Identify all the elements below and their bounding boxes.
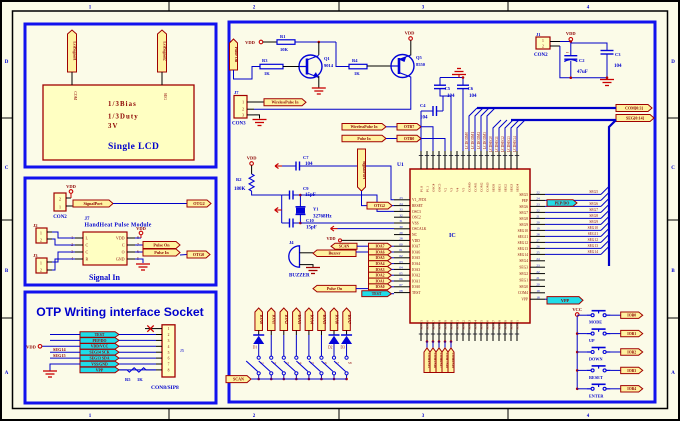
svg-text:IOA3: IOA3 <box>375 268 384 272</box>
svg-text:A: A <box>671 371 675 376</box>
svg-text:SEG8: SEG8 <box>589 214 598 218</box>
svg-text:Single LCD: Single LCD <box>108 142 159 152</box>
svg-text:VPP: VPP <box>521 298 528 302</box>
svg-text:2: 2 <box>168 333 170 337</box>
svg-text:23: 23 <box>399 196 403 200</box>
svg-text:A: A <box>5 371 9 376</box>
svg-text:IOA7: IOA7 <box>412 245 420 249</box>
svg-text:IOA5: IOA5 <box>375 256 384 260</box>
svg-text:C: C <box>122 243 125 248</box>
svg-text:IOA5: IOA5 <box>412 256 420 260</box>
svg-text:LcdSignal2: LcdSignal2 <box>162 41 167 60</box>
svg-text:Pulse On: Pulse On <box>327 286 343 291</box>
svg-text:18: 18 <box>536 295 540 299</box>
svg-text:SEG22: SEG22 <box>462 320 466 330</box>
svg-text:Y1: Y1 <box>313 207 319 212</box>
svg-text:BUZZER: BUZZER <box>289 274 310 279</box>
svg-text:COM4: COM4 <box>518 291 528 295</box>
svg-text:SEG16: SEG16 <box>426 320 430 330</box>
svg-text:27: 27 <box>536 239 540 243</box>
svg-text:VDD: VDD <box>136 226 146 231</box>
svg-text:23: 23 <box>536 203 540 207</box>
svg-text:SEG0: SEG0 <box>519 285 528 289</box>
svg-text:3V: 3V <box>108 123 119 130</box>
svg-text:VDD: VDD <box>116 236 125 241</box>
svg-text:OTB7: OTB7 <box>404 124 414 129</box>
svg-text:J2: J2 <box>33 223 38 228</box>
svg-text:IOB3: IOB3 <box>627 369 636 373</box>
svg-text:32768Hz: 32768Hz <box>313 215 332 220</box>
svg-text:J4: J4 <box>289 240 294 245</box>
svg-text:VCC: VCC <box>572 307 582 312</box>
svg-text:IOA6: IOA6 <box>334 314 339 324</box>
svg-text:22: 22 <box>536 209 540 213</box>
svg-text:180K: 180K <box>234 187 246 192</box>
svg-text:SEG21: SEG21 <box>456 320 460 330</box>
svg-text:SEG14 SCK: SEG14 SCK <box>89 351 109 355</box>
svg-text:SEG6: SEG6 <box>519 205 528 209</box>
svg-text:IOA4: IOA4 <box>412 262 420 266</box>
svg-text:DOWN: DOWN <box>589 357 603 362</box>
svg-text:SEG14: SEG14 <box>588 250 599 254</box>
svg-text:GND: GND <box>116 257 125 262</box>
svg-text:IOA0: IOA0 <box>412 285 420 289</box>
svg-text:LCDCOM2: LCDCOM2 <box>477 132 481 149</box>
svg-text:SEG18: SEG18 <box>438 320 442 330</box>
svg-text:SEG1: SEG1 <box>519 278 528 282</box>
svg-text:OSC5: OSC5 <box>438 183 442 192</box>
svg-text:C4: C4 <box>420 103 426 108</box>
svg-text:C: C <box>86 243 89 248</box>
svg-text:P1.0: P1.0 <box>420 186 424 192</box>
svg-text:19: 19 <box>536 227 540 231</box>
svg-text:CON2: CON2 <box>53 215 67 220</box>
svg-text:SCAN: SCAN <box>233 377 244 382</box>
svg-text:NC: NC <box>412 233 418 237</box>
svg-text:PEP: PEP <box>522 199 528 203</box>
svg-text:1: 1 <box>542 39 544 43</box>
svg-text:IOA1: IOA1 <box>412 279 420 283</box>
svg-text:WirelessPulse In: WirelessPulse In <box>272 101 300 105</box>
svg-text:COM1: COM1 <box>474 182 478 192</box>
svg-text:SEG24: SEG24 <box>474 320 478 330</box>
svg-text:C: C <box>86 250 89 255</box>
svg-text:SEG10: SEG10 <box>588 226 599 230</box>
svg-text:SEG12: SEG12 <box>588 238 599 242</box>
svg-text:D: D <box>5 60 9 65</box>
svg-text:U1: U1 <box>397 162 404 168</box>
svg-text:LCDSEG0: LCDSEG0 <box>489 136 493 152</box>
svg-text:IOA7: IOA7 <box>375 245 384 249</box>
svg-text:VSS: VSS <box>412 221 419 225</box>
svg-text:LCDSEG4: LCDSEG4 <box>513 136 517 152</box>
svg-text:OTB0: OTB0 <box>404 136 414 141</box>
svg-text:PEP/DO: PEP/DO <box>555 200 570 205</box>
svg-text:RESET: RESET <box>412 204 424 208</box>
svg-text:WirelessPulse In: WirelessPulse In <box>351 125 379 129</box>
svg-text:SEG5: SEG5 <box>589 190 598 194</box>
svg-text:SEG3: SEG3 <box>510 184 514 192</box>
svg-text:SEG29: SEG29 <box>504 320 508 330</box>
svg-text:23: 23 <box>536 263 540 267</box>
svg-text:SEG19: SEG19 <box>444 320 448 330</box>
svg-text:R1: R1 <box>280 34 286 39</box>
svg-text:IOA0: IOA0 <box>375 285 384 289</box>
svg-text:VPP: VPP <box>561 298 570 303</box>
svg-text:SEG28: SEG28 <box>498 320 502 330</box>
svg-text:SEG13: SEG13 <box>588 244 599 248</box>
svg-text:2: 2 <box>40 269 42 273</box>
svg-text:VDD: VDD <box>412 239 420 243</box>
svg-text:01: 01 <box>399 248 403 252</box>
svg-text:26: 26 <box>536 245 540 249</box>
svg-text:SEG2: SEG2 <box>519 272 528 276</box>
svg-text:SEG14: SEG14 <box>53 347 66 352</box>
svg-text:28: 28 <box>536 233 540 237</box>
svg-text:J7: J7 <box>234 90 239 95</box>
svg-text:R2: R2 <box>236 177 242 182</box>
svg-text:CON3: CON3 <box>232 122 246 127</box>
svg-text:TEST: TEST <box>412 291 421 295</box>
svg-text:VDD/VCC: VDD/VCC <box>91 345 109 349</box>
svg-text:22: 22 <box>536 270 540 274</box>
svg-text:21: 21 <box>536 215 540 219</box>
svg-text:C9: C9 <box>303 186 309 191</box>
svg-text:COM: COM <box>73 91 77 100</box>
svg-text:RESET: RESET <box>589 375 603 380</box>
svg-text:SCAN: SCAN <box>339 245 350 249</box>
svg-text:C7: C7 <box>303 155 309 160</box>
svg-text:IOA2: IOA2 <box>284 314 289 324</box>
svg-text:IOA2: IOA2 <box>412 274 420 278</box>
svg-text:9014: 9014 <box>324 63 334 68</box>
svg-text:Pulse In: Pulse In <box>154 250 169 255</box>
svg-text:VDD: VDD <box>245 40 255 45</box>
svg-text:07: 07 <box>399 283 403 287</box>
svg-text:OSC2: OSC2 <box>412 216 421 220</box>
svg-text:31: 31 <box>399 219 403 223</box>
svg-text:IOA3: IOA3 <box>412 268 420 272</box>
svg-text:24: 24 <box>536 197 540 201</box>
svg-text:2: 2 <box>542 45 544 49</box>
svg-text:J3: J3 <box>33 253 38 258</box>
svg-text:104: 104 <box>469 94 477 99</box>
svg-text:04: 04 <box>399 266 403 270</box>
svg-text:SignalPort: SignalPort <box>362 161 367 180</box>
svg-text:TEST: TEST <box>372 292 382 296</box>
svg-text:Buzzer: Buzzer <box>329 251 341 256</box>
svg-text:C5: C5 <box>445 86 451 91</box>
svg-text:J7: J7 <box>85 217 91 222</box>
svg-text:~: ~ <box>566 51 569 56</box>
svg-text:CON8/SIP8: CON8/SIP8 <box>151 385 179 391</box>
svg-text:IOA7: IOA7 <box>347 314 352 324</box>
svg-text:SEG20: SEG20 <box>450 320 454 330</box>
svg-text:104: 104 <box>614 64 622 69</box>
svg-text:02: 02 <box>399 254 403 258</box>
svg-text:C3: C3 <box>615 52 621 57</box>
svg-text:C2: C2 <box>579 58 585 63</box>
svg-text:UP: UP <box>589 338 595 343</box>
svg-text:SEG2: SEG2 <box>504 184 508 192</box>
svg-text:24: 24 <box>536 257 540 261</box>
svg-text:OSC3: OSC3 <box>412 210 421 214</box>
svg-text:OSC4: OSC4 <box>432 183 436 192</box>
svg-text:IOA1: IOA1 <box>272 314 277 324</box>
svg-text:21: 21 <box>536 276 540 280</box>
svg-text:47uF: 47uF <box>577 70 588 75</box>
svg-text:1: 1 <box>168 327 170 331</box>
svg-text:VDD: VDD <box>405 31 415 36</box>
svg-text:SEG9: SEG9 <box>589 220 598 224</box>
svg-text:SignalPort: SignalPort <box>83 201 103 206</box>
svg-text:SEG15: SEG15 <box>420 320 424 330</box>
svg-text:SEG7: SEG7 <box>589 208 598 212</box>
svg-text:D2: D2 <box>328 346 333 350</box>
svg-text:SEG: SEG <box>163 93 167 100</box>
svg-text:TEST: TEST <box>95 333 105 337</box>
svg-text:R4: R4 <box>352 58 358 63</box>
svg-text:V5: V5 <box>462 188 466 192</box>
svg-text:D1: D1 <box>253 346 258 350</box>
svg-text:R3: R3 <box>262 58 268 63</box>
svg-text:R: R <box>86 257 89 262</box>
svg-text:Q1: Q1 <box>324 56 331 61</box>
svg-text:SEG11: SEG11 <box>518 235 528 239</box>
svg-text:D: D <box>671 60 675 65</box>
svg-text:IOA6: IOA6 <box>412 250 420 254</box>
svg-text:PEP/DO: PEP/DO <box>93 339 107 343</box>
svg-text:06: 06 <box>399 277 403 281</box>
svg-text:O: O <box>122 250 125 255</box>
svg-text:SEG1: SEG1 <box>498 184 502 192</box>
svg-text:IOB4: IOB4 <box>627 387 636 391</box>
svg-text:V4: V4 <box>456 188 460 192</box>
svg-text:LCDCOM0: LCDCOM0 <box>465 132 469 149</box>
svg-text:SEG4: SEG4 <box>519 259 528 263</box>
svg-text:1: 1 <box>40 262 42 266</box>
svg-text:19: 19 <box>536 289 540 293</box>
svg-text:OTP Writing interface Socket: OTP Writing interface Socket <box>36 305 204 319</box>
svg-text:V1_JVD1: V1_JVD1 <box>412 198 427 202</box>
svg-text:LCDSEG2: LCDSEG2 <box>501 136 505 152</box>
svg-text:Pulse On: Pulse On <box>234 47 239 63</box>
svg-text:30: 30 <box>399 225 403 229</box>
svg-text:COM8/S19: COM8/S19 <box>451 353 455 369</box>
svg-text:SEG4: SEG4 <box>516 184 520 192</box>
svg-text:V3: V3 <box>450 188 454 192</box>
svg-text:C: C <box>5 166 9 171</box>
svg-text:00: 00 <box>399 242 403 246</box>
svg-text:SEG7: SEG7 <box>519 211 528 215</box>
svg-text:22: 22 <box>536 191 540 195</box>
svg-text:SEG27: SEG27 <box>492 320 496 330</box>
svg-text:VSS/GND: VSS/GND <box>91 362 108 366</box>
svg-text:SEG14: SEG14 <box>518 253 529 257</box>
svg-text:VDD: VDD <box>26 344 36 349</box>
svg-text:P1.1: P1.1 <box>426 186 430 192</box>
svg-text:OSCALK: OSCALK <box>412 227 427 231</box>
svg-text:COM0: COM0 <box>468 182 472 192</box>
svg-text:28: 28 <box>399 237 403 241</box>
svg-text:20: 20 <box>536 283 540 287</box>
svg-text:2: 2 <box>59 197 61 202</box>
svg-text:COM3: COM3 <box>486 182 490 192</box>
svg-text:C: C <box>671 166 675 171</box>
svg-text:SEG9: SEG9 <box>519 223 528 227</box>
svg-text:SEG13 SDA: SEG13 SDA <box>90 356 110 360</box>
svg-text:SEG26: SEG26 <box>486 320 490 330</box>
svg-text:SEG25: SEG25 <box>480 320 484 330</box>
svg-text:SEG3: SEG3 <box>519 266 528 270</box>
svg-text:IOA4: IOA4 <box>375 262 384 266</box>
svg-text:SEG31: SEG31 <box>516 320 520 330</box>
svg-text:IC: IC <box>449 233 456 239</box>
svg-text:SEG12: SEG12 <box>518 241 529 245</box>
svg-text:24: 24 <box>399 202 403 206</box>
svg-text:8: 8 <box>168 369 170 373</box>
svg-text:IOA5: IOA5 <box>322 314 327 324</box>
svg-text:Pulse On: Pulse On <box>153 243 170 248</box>
svg-text:SEG11: SEG11 <box>588 232 598 236</box>
svg-text:SEG13: SEG13 <box>518 247 529 251</box>
svg-text:3: 3 <box>168 339 170 343</box>
svg-text:SEG30: SEG30 <box>510 320 514 330</box>
svg-text:20: 20 <box>536 221 540 225</box>
svg-text:SEG5: SEG5 <box>519 193 528 197</box>
svg-text:SEG0: SEG0 <box>492 184 496 192</box>
svg-text:29: 29 <box>399 231 403 235</box>
svg-text:ENTER: ENTER <box>589 393 604 398</box>
svg-text:COM2: COM2 <box>480 182 484 192</box>
svg-text:VDD: VDD <box>66 184 76 189</box>
svg-text:LCDCOM1: LCDCOM1 <box>471 132 475 149</box>
svg-text:C6: C6 <box>468 86 474 91</box>
svg-text:OTG2: OTG2 <box>193 201 204 206</box>
svg-text:SEG23: SEG23 <box>468 320 472 330</box>
svg-text:IOA6: IOA6 <box>375 250 384 254</box>
svg-text:IOB0: IOB0 <box>627 314 636 318</box>
svg-text:5: 5 <box>168 351 170 355</box>
svg-text:25: 25 <box>536 251 540 255</box>
svg-text:LCDCOM3: LCDCOM3 <box>483 132 487 149</box>
svg-text:SEG15: SEG15 <box>53 353 66 358</box>
svg-text:LCDSEG3: LCDSEG3 <box>507 136 511 152</box>
svg-text:1/3Duty: 1/3Duty <box>108 114 139 121</box>
svg-text:2: 2 <box>242 108 244 112</box>
svg-text:6: 6 <box>168 357 170 361</box>
svg-text:OTG0: OTG0 <box>193 252 204 257</box>
svg-text:4: 4 <box>168 345 170 349</box>
svg-text:IOA3: IOA3 <box>297 314 302 324</box>
svg-text:OTG2: OTG2 <box>374 203 385 208</box>
svg-text:MODE: MODE <box>589 320 602 325</box>
svg-text:1: 1 <box>242 101 244 105</box>
svg-text:08: 08 <box>399 289 403 293</box>
svg-text:8550: 8550 <box>416 62 426 67</box>
svg-text:IOA0: IOA0 <box>259 314 264 324</box>
svg-text:COM[0:3]: COM[0:3] <box>625 105 643 110</box>
svg-text:Signal In: Signal In <box>89 273 120 282</box>
svg-text:1: 1 <box>59 205 61 210</box>
svg-text:15pF: 15pF <box>306 226 317 231</box>
svg-text:V2: V2 <box>444 188 448 192</box>
svg-text:1/3Bias: 1/3Bias <box>108 101 137 108</box>
svg-text:CON2: CON2 <box>534 53 548 58</box>
svg-text:7: 7 <box>168 363 170 367</box>
svg-text:Pulse In: Pulse In <box>357 137 371 141</box>
svg-text:LcdSignal1: LcdSignal1 <box>72 41 77 60</box>
svg-text:03: 03 <box>399 260 403 264</box>
svg-text:10K: 10K <box>280 47 289 52</box>
svg-text:VDD: VDD <box>247 156 257 161</box>
svg-text:33: 33 <box>399 208 403 212</box>
svg-text:SEG8: SEG8 <box>519 217 528 221</box>
svg-text:IOB2: IOB2 <box>627 350 636 354</box>
svg-text:SEG[0:14]: SEG[0:14] <box>626 115 645 120</box>
svg-text:SEG6: SEG6 <box>589 202 598 206</box>
svg-text:05: 05 <box>399 271 403 275</box>
svg-text:1K: 1K <box>137 377 143 382</box>
svg-text:1K: 1K <box>264 71 270 76</box>
svg-text:J1: J1 <box>536 32 541 37</box>
svg-text:S8: S8 <box>348 361 352 365</box>
svg-text:IOA1: IOA1 <box>375 279 384 283</box>
svg-text:LCDSEG1: LCDSEG1 <box>495 136 499 152</box>
svg-text:IOB1: IOB1 <box>627 332 636 336</box>
svg-text:VDD: VDD <box>566 31 576 36</box>
svg-text:2: 2 <box>40 239 42 243</box>
svg-text:1K: 1K <box>354 71 360 76</box>
svg-text:IOA4: IOA4 <box>309 314 314 324</box>
svg-text:Q5: Q5 <box>416 55 423 60</box>
svg-text:D3: D3 <box>341 346 346 350</box>
svg-text:3: 3 <box>242 113 244 117</box>
svg-text:SEG10: SEG10 <box>518 229 529 233</box>
svg-text:R5: R5 <box>125 377 131 382</box>
svg-text:1: 1 <box>40 232 42 236</box>
svg-text:VDD: VDD <box>326 236 335 241</box>
svg-text:SEG17: SEG17 <box>432 320 436 330</box>
svg-text:IOA2: IOA2 <box>375 274 384 278</box>
svg-text:32: 32 <box>399 213 403 217</box>
svg-text:VPP: VPP <box>96 368 104 372</box>
